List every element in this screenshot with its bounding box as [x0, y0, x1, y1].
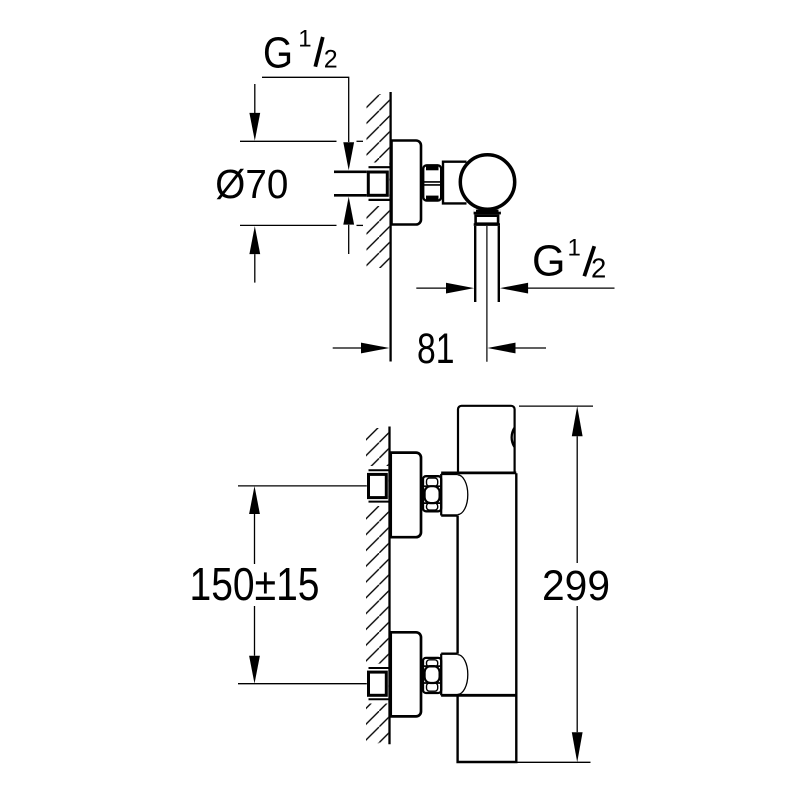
dim G 1/2 hose: left line + arrow: [416, 287, 447, 289]
svg-text:G: G: [263, 28, 293, 77]
hatch clearance around lower square: [361, 664, 388, 704]
svg-text:G: G: [532, 237, 566, 286]
dim 299 vertical with arrows: [572, 406, 583, 436]
Ø70 extension line (escutcheon top): [240, 140, 337, 142]
dim 150±15 vertical with arrows: [249, 486, 260, 514]
anchor square fitting lines to wall: [369, 166, 390, 168]
svg-text:1: 1: [298, 25, 311, 52]
pipe centerline: [486, 226, 488, 362]
anchor square (top view): [368, 172, 387, 195]
wall hatching (top view): [367, 94, 390, 268]
svg-text:2: 2: [591, 253, 606, 284]
dim 81: left line + arrow to wall: [333, 347, 362, 349]
svg-text:Ø70: Ø70: [215, 161, 288, 207]
arrow up to pipe bottom edge + tail: [343, 197, 354, 225]
lower union nut: [423, 658, 441, 693]
ext line 299 bottom: [513, 761, 591, 763]
upper boss bulge arc: [458, 475, 468, 515]
hatch clearance around anchor square: [361, 163, 389, 207]
dim 81: right arrow + line: [487, 343, 515, 354]
wall line (bottom view): [388, 427, 390, 745]
svg-text:2: 2: [324, 46, 338, 74]
upper escutcheon (bottom view): [391, 453, 421, 538]
hatch clearance around upper square: [361, 466, 388, 506]
temperature knob circle: [460, 155, 514, 209]
upper anchor square: [369, 474, 387, 497]
upper inlet boss: [441, 473, 457, 475]
collar under knob (dark band): [474, 210, 501, 215]
hose connection pipe: [474, 226, 476, 302]
dim line Ø70 upper arrow: [254, 84, 256, 113]
svg-text:1: 1: [568, 235, 581, 262]
upper anchor square lines: [369, 469, 390, 471]
lower escutcheon (bottom view): [391, 632, 421, 716]
lower boss bulge arc: [458, 655, 468, 695]
valve body (top view): [443, 162, 467, 204]
lower anchor square lines: [369, 667, 390, 669]
hex nut (top view): [423, 165, 441, 200]
temperature stop screw: [512, 428, 515, 447]
svg-text:81: 81: [417, 326, 455, 373]
lower inlet boss: [441, 653, 457, 655]
cap seam (thick): [441, 472, 516, 475]
ext line 150 dim (lower fitting centerline): [238, 683, 367, 685]
dim G 1/2 hose: right arrow + line: [500, 283, 528, 294]
wall hatching (bottom view): [366, 428, 388, 743]
dim line Ø70 lower arrow: [249, 226, 260, 254]
arrow down to pipe top edge: [343, 142, 354, 170]
lower seam (thick): [441, 694, 516, 697]
upper union nut: [423, 476, 441, 511]
ext line 299 top: [519, 405, 593, 407]
escutcheon (top view): [392, 141, 422, 225]
supply pipe lines into wall: [334, 171, 367, 174]
main body outline: [458, 473, 517, 762]
body top cap: [458, 406, 515, 473]
svg-text:150±15: 150±15: [190, 558, 320, 610]
bracket under G 1/2 label: [262, 77, 349, 142]
Ø70 extension line (escutcheon bottom): [240, 224, 337, 226]
hose nut under knob: [476, 216, 499, 224]
wall line (top view): [389, 92, 391, 362]
ext line 150 dim (upper fitting centerline): [238, 485, 367, 487]
lower anchor square: [369, 672, 387, 695]
svg-text:299: 299: [542, 562, 610, 610]
